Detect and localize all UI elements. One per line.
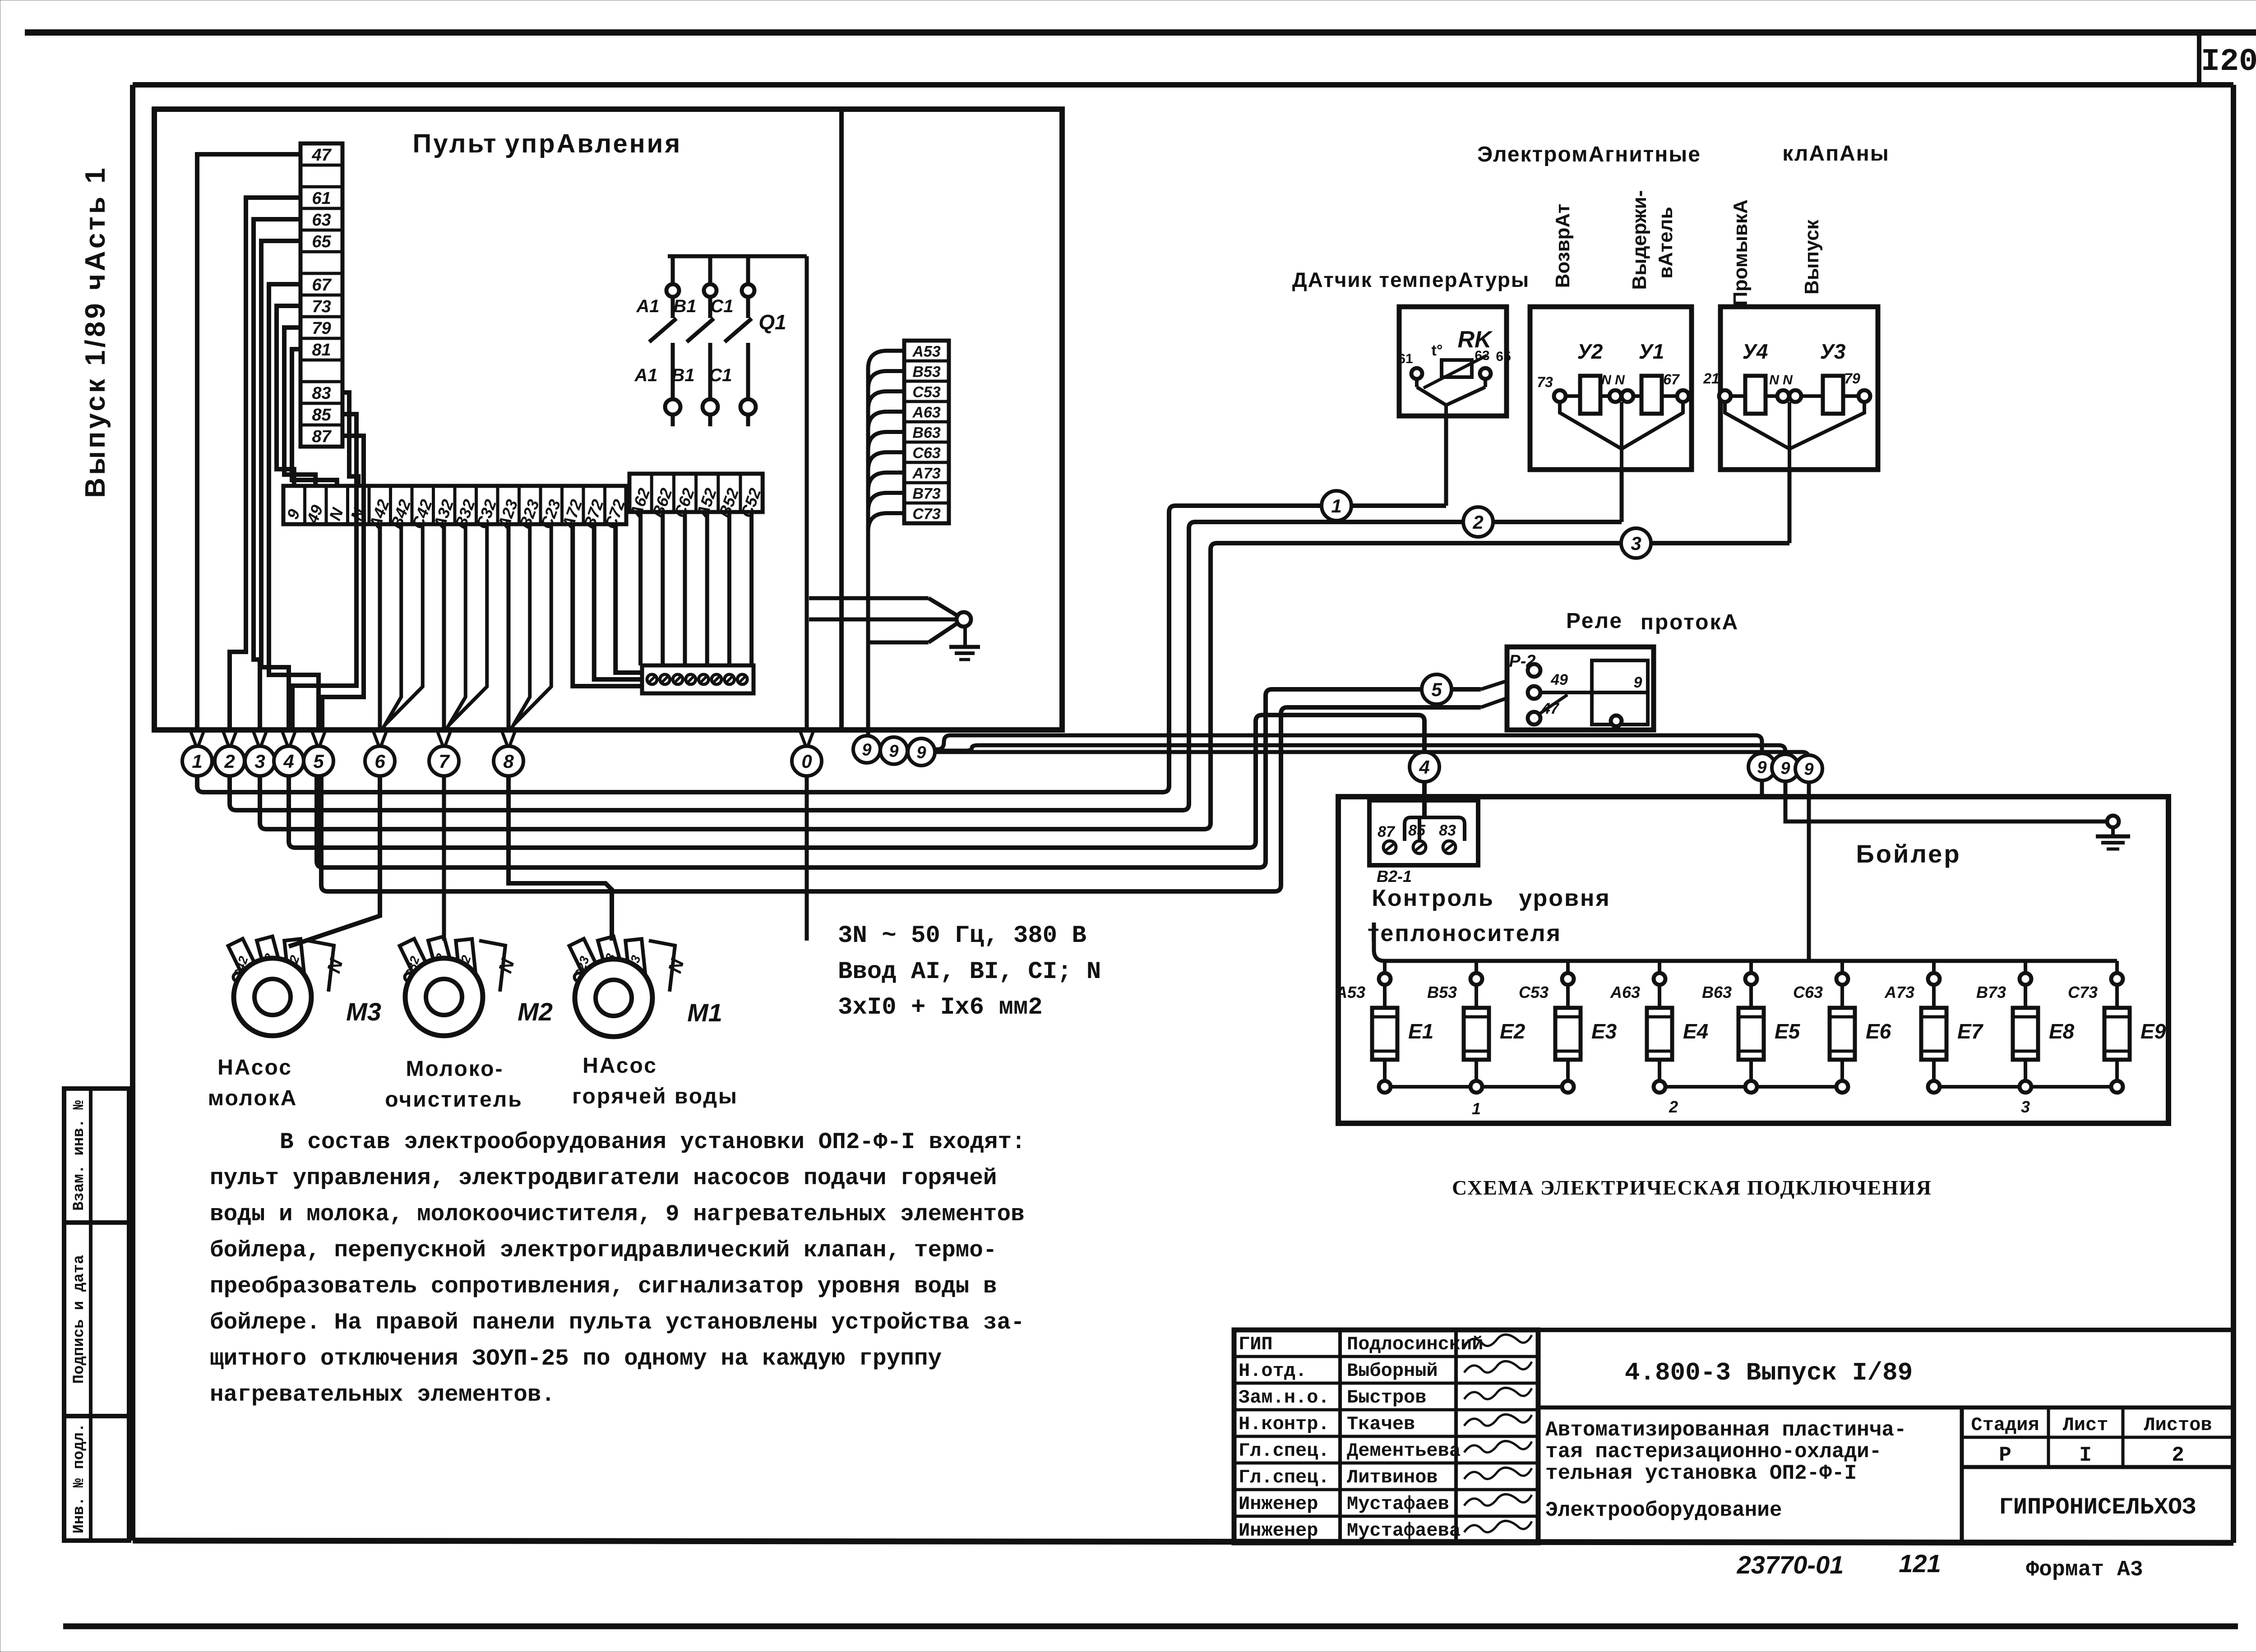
svg-text:61: 61 bbox=[312, 189, 331, 208]
svg-text:9: 9 bbox=[1804, 760, 1813, 779]
svg-text:ВозврАт: ВозврАт bbox=[1552, 204, 1574, 288]
svg-text:тая пастеризационно-охлади-: тая пастеризационно-охлади- bbox=[1545, 1440, 1882, 1463]
svg-text:протокА: протокА bbox=[1641, 610, 1739, 634]
svg-text:уровня: уровня bbox=[1519, 885, 1610, 911]
svg-text:Инженер: Инженер bbox=[1239, 1493, 1318, 1515]
svg-text:ГИП: ГИП bbox=[1239, 1334, 1273, 1355]
svg-text:0: 0 bbox=[801, 751, 812, 772]
svg-text:9: 9 bbox=[1757, 758, 1766, 777]
svg-text:N N: N N bbox=[1601, 373, 1625, 388]
svg-text:5: 5 bbox=[1431, 679, 1442, 700]
svg-text:М2: М2 bbox=[518, 997, 553, 1026]
svg-text:Е2: Е2 bbox=[1500, 1020, 1526, 1043]
svg-text:4: 4 bbox=[283, 751, 294, 772]
svg-text:вАтель: вАтель bbox=[1655, 207, 1677, 278]
svg-text:N N: N N bbox=[1769, 373, 1793, 388]
svg-text:3: 3 bbox=[1631, 533, 1641, 554]
svg-text:Е9: Е9 bbox=[2140, 1020, 2166, 1043]
svg-text:7: 7 bbox=[439, 751, 450, 772]
svg-text:В1: В1 bbox=[671, 365, 694, 385]
svg-text:87: 87 bbox=[1378, 823, 1396, 840]
svg-text:нагревательных элементов.: нагревательных элементов. bbox=[210, 1382, 555, 1408]
svg-text:2: 2 bbox=[1472, 512, 1483, 533]
svg-text:С1: С1 bbox=[709, 365, 732, 385]
svg-text:t°: t° bbox=[1432, 342, 1443, 359]
svg-text:Н.отд.: Н.отд. bbox=[1239, 1360, 1307, 1382]
svg-text:ЭлектромАгнитные: ЭлектромАгнитные bbox=[1477, 143, 1701, 166]
svg-text:9: 9 bbox=[862, 741, 871, 760]
svg-text:А63: А63 bbox=[1610, 983, 1640, 1001]
svg-text:87: 87 bbox=[312, 427, 332, 446]
svg-text:79: 79 bbox=[312, 319, 331, 338]
svg-text:Инженер: Инженер bbox=[1239, 1520, 1318, 1541]
svg-text:Выпуск: Выпуск bbox=[1801, 219, 1823, 295]
svg-text:НАсос: НАсос bbox=[217, 1056, 292, 1080]
svg-text:С1: С1 bbox=[710, 296, 733, 316]
svg-text:73: 73 bbox=[1537, 374, 1553, 390]
svg-text:73: 73 bbox=[312, 297, 331, 316]
svg-text:6: 6 bbox=[374, 751, 385, 772]
svg-text:65: 65 bbox=[312, 232, 331, 251]
svg-text:Мустафаев: Мустафаев bbox=[1347, 1493, 1449, 1515]
svg-text:Е5: Е5 bbox=[1775, 1020, 1801, 1043]
svg-text:Дементьева: Дементьева bbox=[1347, 1440, 1461, 1462]
svg-text:Автоматизированная пластинча-: Автоматизированная пластинча- bbox=[1545, 1418, 1907, 1442]
svg-text:81: 81 bbox=[312, 341, 331, 360]
svg-text:Взам. инв. №: Взам. инв. № bbox=[71, 1100, 88, 1210]
svg-text:Подлосинский: Подлосинский bbox=[1347, 1334, 1483, 1355]
svg-text:В63: В63 bbox=[912, 425, 940, 442]
svg-text:тельная установка ОП2-Ф-I: тельная установка ОП2-Ф-I bbox=[1545, 1462, 1857, 1485]
svg-text:очиститель: очиститель bbox=[385, 1088, 522, 1112]
svg-text:А1: А1 bbox=[636, 296, 659, 316]
svg-text:упрАвления: упрАвления bbox=[505, 129, 682, 158]
svg-text:Инв. № подл.: Инв. № подл. bbox=[71, 1423, 88, 1534]
svg-text:3N ~ 50 Гц, 380 В: 3N ~ 50 Гц, 380 В bbox=[838, 922, 1086, 950]
svg-text:5: 5 bbox=[313, 751, 324, 772]
svg-text:Листов: Листов bbox=[2144, 1414, 2212, 1436]
svg-text:79: 79 bbox=[1844, 370, 1860, 387]
svg-text:Электрооборудование: Электрооборудование bbox=[1545, 1499, 1782, 1522]
svg-text:121: 121 bbox=[1899, 1549, 1941, 1578]
svg-text:Ввод АI, ВI, СI; N: Ввод АI, ВI, СI; N bbox=[838, 958, 1101, 986]
svg-text:С63: С63 bbox=[1793, 983, 1823, 1001]
svg-text:ПромывкА: ПромывкА bbox=[1729, 199, 1752, 306]
svg-text:М1: М1 bbox=[687, 998, 722, 1027]
svg-text:I20: I20 bbox=[2201, 44, 2256, 80]
svg-text:9: 9 bbox=[1780, 759, 1790, 778]
svg-text:преобразователь сопротивления,: преобразователь сопротивления, сигнализа… bbox=[210, 1274, 997, 1300]
svg-text:В1: В1 bbox=[673, 296, 696, 316]
svg-text:85: 85 bbox=[312, 406, 331, 425]
svg-text:Выборный: Выборный bbox=[1347, 1360, 1438, 1382]
svg-text:У2: У2 bbox=[1577, 340, 1603, 363]
svg-text:23770-01: 23770-01 bbox=[1737, 1550, 1844, 1579]
svg-text:67: 67 bbox=[312, 276, 332, 295]
svg-text:С63: С63 bbox=[912, 445, 940, 462]
svg-text:63: 63 bbox=[1475, 348, 1489, 363]
svg-text:теплоносителя: теплоносителя bbox=[1368, 920, 1562, 946]
svg-text:Выдержи-: Выдержи- bbox=[1628, 190, 1650, 290]
svg-text:9: 9 bbox=[889, 742, 898, 761]
svg-text:63: 63 bbox=[312, 211, 331, 230]
svg-text:М3: М3 bbox=[346, 997, 381, 1026]
svg-text:В73: В73 bbox=[912, 485, 940, 503]
svg-text:2: 2 bbox=[224, 751, 235, 772]
svg-text:В53: В53 bbox=[1427, 983, 1457, 1001]
svg-text:47: 47 bbox=[1541, 700, 1560, 717]
svg-text:А1: А1 bbox=[634, 365, 657, 385]
svg-text:Е8: Е8 bbox=[2049, 1020, 2075, 1043]
svg-text:4: 4 bbox=[1419, 757, 1429, 778]
svg-text:Подпись и дата: Подпись и дата bbox=[71, 1255, 88, 1384]
svg-text:Контроль: Контроль bbox=[1372, 885, 1494, 911]
svg-text:3: 3 bbox=[254, 751, 265, 772]
svg-text:С53: С53 bbox=[1519, 983, 1549, 1001]
svg-text:ГИПРОНИСЕЛЬХОЗ: ГИПРОНИСЕЛЬХОЗ bbox=[1999, 1494, 2196, 1521]
svg-text:1: 1 bbox=[192, 751, 202, 772]
svg-text:бойлере. На правой панели пуль: бойлере. На правой панели пульта установ… bbox=[210, 1310, 1025, 1336]
svg-text:С73: С73 bbox=[912, 506, 940, 523]
svg-text:У3: У3 bbox=[1820, 340, 1846, 363]
svg-text:А53: А53 bbox=[912, 343, 940, 360]
svg-text:85: 85 bbox=[1408, 822, 1426, 839]
svg-text:2: 2 bbox=[1669, 1098, 1678, 1116]
svg-text:1: 1 bbox=[1472, 1099, 1481, 1118]
svg-text:Стадия: Стадия bbox=[1971, 1414, 2039, 1436]
svg-text:Е4: Е4 bbox=[1683, 1020, 1708, 1043]
svg-text:Мустафаева: Мустафаева bbox=[1347, 1520, 1461, 1541]
svg-text:Реле: Реле bbox=[1566, 609, 1623, 633]
svg-text:83: 83 bbox=[312, 384, 331, 403]
svg-text:Н.контр.: Н.контр. bbox=[1239, 1413, 1330, 1435]
svg-text:I: I bbox=[2079, 1444, 2092, 1467]
svg-text:Гл.спец.: Гл.спец. bbox=[1239, 1467, 1330, 1488]
svg-text:Лист: Лист bbox=[2063, 1414, 2108, 1436]
svg-text:4.800-3 Выпуск I/89: 4.800-3 Выпуск I/89 bbox=[1625, 1358, 1913, 1387]
svg-text:47: 47 bbox=[311, 146, 332, 165]
svg-text:Молоко-: Молоко- bbox=[406, 1057, 504, 1081]
svg-text:8: 8 bbox=[503, 751, 514, 772]
svg-text:бойлера, перепускной электроги: бойлера, перепускной электрогидравлическ… bbox=[210, 1238, 997, 1264]
svg-text:С53: С53 bbox=[912, 384, 940, 401]
svg-text:Бойлер: Бойлер bbox=[1856, 840, 1961, 868]
svg-text:А53: А53 bbox=[1335, 983, 1365, 1001]
svg-text:Ткачев: Ткачев bbox=[1347, 1413, 1415, 1435]
svg-text:Е3: Е3 bbox=[1591, 1020, 1617, 1043]
svg-text:С73: С73 bbox=[2068, 983, 2098, 1001]
svg-text:Е1: Е1 bbox=[1408, 1020, 1433, 1043]
svg-text:А73: А73 bbox=[1884, 983, 1914, 1001]
svg-text:Быстров: Быстров bbox=[1347, 1387, 1426, 1408]
svg-text:щитного отключения ЗОУП-25 по: щитного отключения ЗОУП-25 по одному на … bbox=[210, 1346, 942, 1372]
svg-text:9: 9 bbox=[1634, 674, 1642, 691]
svg-text:А63: А63 bbox=[912, 404, 940, 421]
svg-text:3хI0 + Iх6 мм2: 3хI0 + Iх6 мм2 bbox=[838, 994, 1043, 1021]
svg-text:воды и молока, молокоочистител: воды и молока, молокоочистителя, 9 нагре… bbox=[210, 1202, 1025, 1227]
svg-text:65: 65 bbox=[1496, 349, 1511, 364]
svg-text:Е6: Е6 bbox=[1866, 1020, 1891, 1043]
svg-text:молокА: молокА bbox=[208, 1086, 298, 1110]
svg-text:НАсос: НАсос bbox=[582, 1054, 657, 1078]
svg-text:У1: У1 bbox=[1639, 340, 1664, 363]
svg-text:У4: У4 bbox=[1743, 340, 1768, 363]
svg-text:пульт управления, электродвига: пульт управления, электродвигатели насос… bbox=[210, 1166, 997, 1191]
svg-text:В63: В63 bbox=[1702, 983, 1732, 1001]
svg-text:Р: Р bbox=[1999, 1444, 2011, 1467]
svg-text:горячей воды: горячей воды bbox=[572, 1084, 738, 1108]
svg-text:21: 21 bbox=[1703, 370, 1720, 387]
svg-text:Пульт: Пульт bbox=[413, 129, 498, 158]
svg-text:клАпАны: клАпАны bbox=[1782, 142, 1889, 166]
svg-text:49: 49 bbox=[1550, 671, 1568, 688]
svg-text:СХЕМА ЭЛЕКТРИЧЕСКАЯ ПОДКЛЮЧЕ: СХЕМА ЭЛЕКТРИЧЕСКАЯ ПОДКЛЮЧЕНИЯ bbox=[1452, 1176, 1932, 1199]
svg-text:67: 67 bbox=[1663, 371, 1680, 388]
svg-text:Е7: Е7 bbox=[1957, 1020, 1984, 1043]
svg-text:Q1: Q1 bbox=[758, 310, 786, 334]
svg-text:Литвинов: Литвинов bbox=[1347, 1467, 1438, 1488]
svg-text:61: 61 bbox=[1398, 351, 1413, 366]
svg-text:В2-1: В2-1 bbox=[1377, 867, 1412, 886]
svg-text:В53: В53 bbox=[912, 364, 940, 381]
svg-text:9: 9 bbox=[916, 743, 926, 762]
svg-text:Выпуск 1/89 чАсть 1: Выпуск 1/89 чАсть 1 bbox=[80, 165, 111, 498]
svg-text:1: 1 bbox=[1331, 495, 1341, 517]
svg-text:ДАтчик темперАтуры: ДАтчик темперАтуры bbox=[1292, 268, 1530, 291]
svg-text:В состав электрооборудования у: В состав электрооборудования установки О… bbox=[280, 1130, 1026, 1155]
svg-text:Формат А3: Формат А3 bbox=[2026, 1558, 2143, 1582]
svg-text:А73: А73 bbox=[912, 465, 940, 482]
svg-text:Зам.н.о.: Зам.н.о. bbox=[1239, 1387, 1330, 1408]
svg-text:В73: В73 bbox=[1976, 983, 2006, 1001]
svg-text:83: 83 bbox=[1439, 822, 1456, 839]
svg-text:2: 2 bbox=[2172, 1444, 2184, 1467]
svg-text:3: 3 bbox=[2021, 1098, 2030, 1116]
svg-text:Гл.спец.: Гл.спец. bbox=[1239, 1440, 1330, 1462]
